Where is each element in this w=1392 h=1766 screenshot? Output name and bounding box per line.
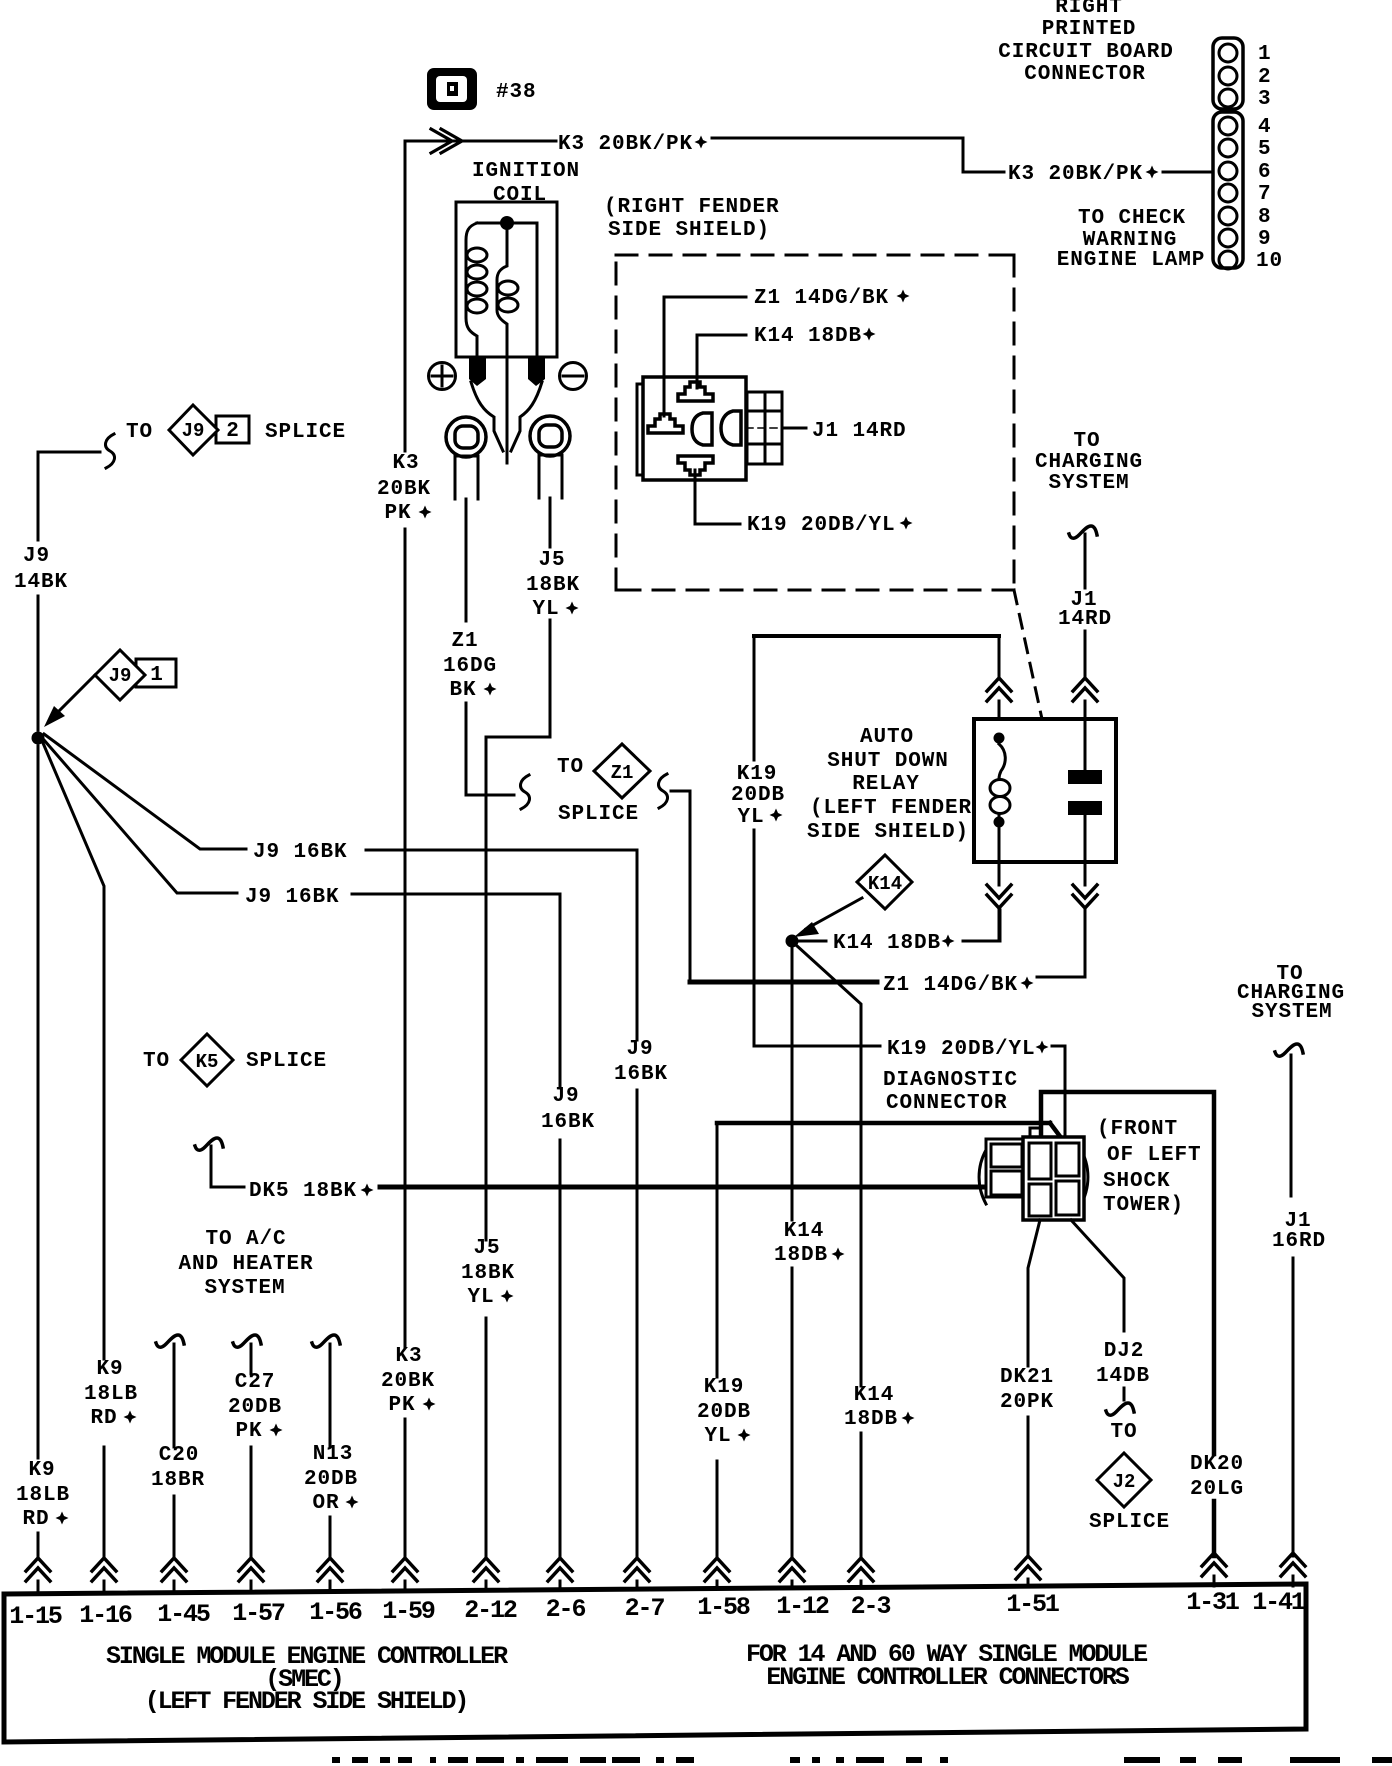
svg-text:(LEFT FENDER SIDE SHIELD): (LEFT FENDER SIDE SHIELD) — [145, 1687, 468, 1716]
svg-text:1: 1 — [1258, 43, 1272, 66]
ignition coil right inner wire — [536, 223, 539, 357]
label K9 18LB RD (above 1-15) — [16, 1459, 70, 1531]
Z1 splice diamond — [594, 744, 650, 798]
squiggle J1 top — [1069, 526, 1097, 538]
plus symbol — [429, 363, 456, 390]
chevron pin 1-57 — [239, 1558, 263, 1581]
svg-text:2-6: 2-6 — [546, 1595, 586, 1624]
label K3 20BK PK (lower) — [381, 1345, 435, 1417]
chevron pin 1-59 — [393, 1558, 417, 1581]
chevron pin 1-56 — [318, 1558, 342, 1581]
svg-text:AND HEATER: AND HEATER — [178, 1253, 313, 1276]
J9 1 splice box — [136, 659, 176, 687]
svg-text:K14 18DB: K14 18DB — [833, 932, 941, 955]
svg-text:K14: K14 — [868, 873, 902, 895]
svg-text:YL: YL — [737, 806, 764, 829]
svg-text:SPLICE: SPLICE — [246, 1050, 327, 1073]
svg-text:K5: K5 — [196, 1051, 219, 1073]
wire J1 from connector side tab — [782, 427, 806, 430]
svg-text:K9: K9 — [96, 1358, 123, 1381]
svg-text:TO: TO — [126, 421, 153, 444]
chevron J1 into relay — [1073, 678, 1097, 701]
svg-text:SPLICE: SPLICE — [558, 803, 639, 826]
diagnostic connector circle — [979, 1148, 1088, 1206]
wire J1 into relay — [1084, 631, 1087, 676]
bottom cut-off scan marks — [332, 1757, 1392, 1763]
svg-text:RELAY: RELAY — [852, 773, 920, 796]
wire J9 14BK main vertical — [37, 452, 40, 1556]
svg-text:J1 14RD: J1 14RD — [812, 420, 907, 443]
svg-text:1-31: 1-31 — [1186, 1588, 1239, 1617]
wire node diagonal to pin 2-3 — [796, 945, 861, 1556]
svg-text:PK: PK — [384, 502, 411, 525]
wire K19 vertical to pin 1-58 — [716, 1123, 719, 1556]
J9 1 splice diamond — [95, 650, 145, 700]
svg-text:4: 4 — [1258, 116, 1272, 139]
wire DK5 drop — [211, 1146, 244, 1187]
svg-text:16RD: 16RD — [1272, 1230, 1326, 1253]
svg-text:SYSTEM: SYSTEM — [204, 1277, 285, 1300]
label Z1 16DG BK — [443, 630, 497, 702]
svg-text:J9: J9 — [626, 1038, 653, 1061]
svg-text:N13: N13 — [313, 1443, 354, 1466]
svg-text:(RIGHT FENDER: (RIGHT FENDER — [604, 196, 780, 219]
connector back plate — [637, 384, 643, 475]
connector top pin — [678, 382, 713, 401]
relay contact bar upper — [1068, 770, 1102, 784]
wire K14 to relay connector top pin — [697, 335, 746, 388]
wire J5 jog to pin 2-12 — [486, 620, 550, 1556]
wire fan 1 to J9 16BK label — [44, 734, 246, 849]
wire K3 top horizontal — [405, 140, 556, 143]
PCB connector hole 4 — [1219, 117, 1237, 135]
svg-text:2-12: 2-12 — [464, 1596, 517, 1625]
label K3 20BK PK (upper) — [377, 452, 431, 525]
svg-text:20BK: 20BK — [381, 1370, 435, 1393]
svg-text:1-41: 1-41 — [1252, 1588, 1305, 1617]
svg-text:K14: K14 — [784, 1220, 825, 1243]
J9 splice diamond — [169, 405, 218, 455]
coil terminal right (black) — [528, 357, 545, 386]
diagnostic connector cell top-left — [1029, 1143, 1051, 1179]
arrow chevrons on K3 wire — [431, 129, 462, 153]
svg-text:8: 8 — [1258, 206, 1272, 229]
svg-text:18DB: 18DB — [844, 1408, 898, 1431]
PCB connector hole 10 — [1219, 251, 1237, 269]
svg-text:18LB: 18LB — [16, 1484, 70, 1507]
K14 node junction dot — [786, 935, 799, 948]
diagnostic connector top tab — [1030, 1128, 1041, 1137]
arrow from K14 diamond to node — [806, 898, 862, 929]
svg-text:CHARGING: CHARGING — [1035, 451, 1143, 474]
svg-text:18BR: 18BR — [151, 1469, 205, 1492]
label K19 20DB YL (stacked) — [731, 763, 785, 829]
svg-text:DJ2: DJ2 — [1104, 1340, 1145, 1363]
J2 splice diamond — [1097, 1453, 1151, 1507]
svg-text:20DB: 20DB — [697, 1401, 751, 1424]
svg-text:(LEFT FENDER: (LEFT FENDER — [810, 797, 972, 820]
chevron coil top — [987, 678, 1011, 701]
svg-text:18LB: 18LB — [84, 1383, 138, 1406]
wire ring terminal 2 down — [549, 498, 552, 547]
wire DK21 from connector to pin 1-51 — [1028, 1220, 1040, 1556]
svg-text:TO: TO — [143, 1050, 170, 1073]
connector bottom pin — [678, 456, 713, 475]
svg-text:J9: J9 — [182, 420, 205, 442]
wire to pin 6 — [1163, 171, 1211, 174]
wire fan 2 to J9 16BK label — [44, 740, 237, 893]
svg-text:PK: PK — [388, 1394, 415, 1417]
svg-text:14BK: 14BK — [14, 571, 68, 594]
svg-text:14RD: 14RD — [1058, 608, 1112, 631]
ignition coil top inner wire — [477, 222, 537, 225]
squiggle J1 16RD top — [1275, 1044, 1303, 1056]
svg-text:PK: PK — [235, 1420, 262, 1443]
svg-text:DK21: DK21 — [1000, 1366, 1054, 1389]
svg-text:SPLICE: SPLICE — [1089, 1511, 1170, 1534]
svg-text:20DB: 20DB — [304, 1468, 358, 1491]
svg-text:K3 20BK/PK: K3 20BK/PK — [558, 133, 693, 156]
wire K19 vertical — [753, 636, 756, 1046]
svg-text:Z1 14DG/BK: Z1 14DG/BK — [754, 287, 889, 310]
svg-text:1-56: 1-56 — [309, 1598, 362, 1627]
relay coil upper dot — [994, 733, 1005, 744]
svg-text:IGNITION: IGNITION — [472, 160, 580, 183]
chevron pin 2-12 — [474, 1558, 498, 1581]
diagnostic connector left block — [986, 1139, 1024, 1197]
PCB connector hole 6 — [1219, 162, 1237, 180]
chevron coil bottom — [987, 885, 1011, 908]
svg-text:SPLICE: SPLICE — [265, 421, 346, 444]
ring terminal eyelet left — [446, 417, 486, 499]
svg-text:J9 16BK: J9 16BK — [245, 886, 340, 909]
squiggle C20 — [156, 1335, 184, 1347]
wire K19 to label row — [754, 1045, 880, 1048]
chevron pin 1-31 — [1202, 1553, 1226, 1576]
svg-text:18BK: 18BK — [461, 1262, 515, 1285]
svg-text:SHUT DOWN: SHUT DOWN — [827, 750, 949, 773]
pin labels row — [9, 1588, 1305, 1631]
connector left pin — [648, 414, 683, 433]
svg-text:C27: C27 — [235, 1371, 276, 1394]
label front of left shock tower — [1097, 1118, 1202, 1217]
PCB connector hole 8 — [1219, 207, 1237, 225]
chevron pin 2-3 — [849, 1558, 873, 1581]
connector middle pin — [692, 413, 712, 445]
svg-text:C20: C20 — [159, 1444, 200, 1467]
svg-text:AUTO: AUTO — [860, 726, 914, 749]
svg-text:ENGINE LAMP: ENGINE LAMP — [1057, 249, 1206, 272]
svg-text:9: 9 — [1258, 228, 1272, 251]
svg-text:J9: J9 — [23, 545, 50, 568]
wire J1 16RD — [1291, 1055, 1293, 1556]
arrow J9 1 diamond to node — [57, 675, 95, 713]
wire DK5 to diagnostic connector — [380, 1185, 982, 1190]
svg-text:1-51: 1-51 — [1006, 1590, 1059, 1619]
svg-text:16BK: 16BK — [614, 1063, 668, 1086]
svg-text:Z1: Z1 — [611, 762, 634, 784]
dash-dot centerline through side tab — [746, 427, 806, 429]
label K9 18LB RD (above 1-16) — [84, 1358, 138, 1430]
svg-text:CONNECTOR: CONNECTOR — [886, 1092, 1008, 1115]
svg-text:1-16: 1-16 — [79, 1601, 132, 1630]
wire Z1 splice to Z1 label — [671, 791, 690, 979]
label for 14 and 60 way connectors — [746, 1640, 1147, 1692]
svg-text:OR: OR — [312, 1492, 339, 1515]
squiggle C27 — [233, 1335, 261, 1347]
wire contact bottom exit — [1084, 862, 1087, 885]
squiggle right of Z1 splice — [658, 774, 667, 808]
svg-text:16BK: 16BK — [541, 1111, 595, 1134]
svg-text:1-12: 1-12 — [776, 1592, 829, 1621]
wire J9 top corner to squiggle — [38, 451, 100, 454]
wire fan2 to pin 2-6 — [352, 894, 560, 1556]
wire K14 label to relay coil — [963, 910, 1000, 941]
svg-text:10: 10 — [1256, 250, 1283, 273]
svg-text:1-58: 1-58 — [697, 1593, 750, 1622]
svg-text:BK: BK — [449, 679, 476, 702]
coil center HT lead — [506, 357, 509, 463]
dashed diagonal to relay — [1014, 590, 1042, 719]
chevron pin 2-7 — [625, 1558, 649, 1581]
svg-text:YL: YL — [467, 1286, 494, 1309]
svg-text:J9: J9 — [109, 665, 132, 687]
wire node to K14 label — [799, 940, 826, 943]
K19 loop top wire — [754, 634, 999, 638]
svg-text:K19 20DB/YL: K19 20DB/YL — [887, 1038, 1036, 1061]
svg-text:Z1: Z1 — [451, 630, 478, 653]
connector side tab — [747, 392, 782, 464]
ignition coil T1 box — [456, 202, 557, 357]
diagnostic connector cell top-right — [1056, 1143, 1079, 1176]
svg-text:J9: J9 — [552, 1085, 579, 1108]
wire K3 to PCB connector — [712, 138, 1004, 172]
svg-text:#38: #38 — [496, 81, 537, 104]
pin numbers 1-10 — [1256, 43, 1283, 273]
svg-text:K19 20DB/YL: K19 20DB/YL — [747, 514, 896, 537]
diagnostic connector main square — [1023, 1137, 1084, 1220]
svg-text:(FRONT: (FRONT — [1097, 1118, 1178, 1141]
svg-text:RIGHT: RIGHT — [1055, 0, 1123, 19]
svg-text:2-7: 2-7 — [625, 1594, 665, 1623]
svg-text:OF LEFT: OF LEFT — [1107, 1144, 1202, 1167]
wire fan1 to pin 2-7 — [366, 850, 637, 1556]
squiggle N13 — [312, 1335, 340, 1347]
label J5 18BK YL — [526, 549, 580, 621]
svg-text:TO: TO — [557, 756, 584, 779]
svg-text:Z1 14DG/BK: Z1 14DG/BK — [883, 974, 1018, 997]
wire DK20 loop to pin 1-31 — [1041, 1092, 1214, 1454]
label C20 18BR — [151, 1444, 205, 1492]
svg-text:SYSTEM: SYSTEM — [1048, 472, 1129, 495]
label K19 20DB YL (above 1-58) — [697, 1376, 751, 1448]
wire K3 vertical — [404, 141, 407, 1556]
relay coil exit wire — [998, 826, 1001, 862]
PCB connector body upper — [1213, 38, 1243, 109]
PCB connector hole 2 — [1219, 67, 1237, 85]
wire C20 to pin 1-45 — [173, 1344, 176, 1556]
svg-text:2: 2 — [226, 420, 240, 443]
svg-text:J9 16BK: J9 16BK — [253, 841, 348, 864]
label N13 20DB OR — [304, 1443, 358, 1515]
svg-text:TO CHECK: TO CHECK — [1078, 207, 1186, 230]
label J9 16BK (above 2-6) — [541, 1085, 595, 1134]
relay coil — [999, 744, 1005, 779]
relay box — [974, 719, 1116, 862]
wire Z1 to relay connector left pin — [664, 297, 746, 416]
chevron contact bottom — [1073, 885, 1097, 908]
connector right pin — [721, 411, 741, 445]
label DK21 20PK — [1000, 1366, 1054, 1414]
connector icon #38 — [427, 68, 477, 110]
PCB connector hole 1 — [1219, 44, 1237, 62]
label J5 18BK YL (above 2-12) — [461, 1237, 515, 1309]
svg-text:K9: K9 — [28, 1459, 55, 1482]
label DK20 20LG — [1190, 1453, 1244, 1501]
svg-text:SYSTEM: SYSTEM — [1251, 1001, 1332, 1024]
wire into relay coil top — [998, 636, 1001, 676]
relay contact wire top — [1084, 719, 1087, 769]
wire C27 to pin 1-57 — [250, 1344, 253, 1556]
svg-text:TO: TO — [1073, 430, 1100, 453]
svg-text:K3 20BK/PK: K3 20BK/PK — [1008, 163, 1143, 186]
label auto shut down relay — [807, 726, 972, 844]
svg-text:SIDE SHIELD): SIDE SHIELD) — [608, 219, 770, 242]
svg-text:5: 5 — [1258, 138, 1272, 161]
chevron pin 2-6 — [548, 1558, 572, 1581]
svg-text:1-57: 1-57 — [232, 1599, 285, 1628]
svg-text:YL: YL — [532, 598, 559, 621]
wire ring terminal 1 down — [465, 499, 468, 621]
svg-text:2-3: 2-3 — [851, 1592, 891, 1621]
svg-text:7: 7 — [1258, 183, 1272, 206]
wire N13 to pin 1-56 — [329, 1344, 332, 1556]
svg-text:DK5 18BK: DK5 18BK — [249, 1180, 357, 1203]
chevron pin 1-51 — [1016, 1556, 1040, 1579]
svg-text:K14: K14 — [854, 1384, 895, 1407]
svg-text:DIAGNOSTIC: DIAGNOSTIC — [883, 1069, 1018, 1092]
svg-text:SIDE SHIELD): SIDE SHIELD) — [807, 821, 969, 844]
wire Z1 to splice squiggle — [466, 703, 514, 795]
svg-text:1-59: 1-59 — [382, 1597, 435, 1626]
svg-text:ENGINE CONTROLLER CONNECTORS: ENGINE CONTROLLER CONNECTORS — [766, 1663, 1129, 1692]
svg-text:1-15: 1-15 — [9, 1602, 62, 1631]
svg-text:CONNECTOR: CONNECTOR — [1024, 63, 1146, 86]
relay contact bar lower — [1068, 801, 1102, 815]
chevron pin 1-41 — [1281, 1553, 1305, 1576]
K14 splice diamond — [857, 855, 912, 909]
label C27 20DB PK — [228, 1371, 282, 1443]
svg-text:18BK: 18BK — [526, 574, 580, 597]
PCB connector body lower — [1213, 112, 1243, 268]
PCB connector hole 9 — [1219, 229, 1237, 247]
coil terminal left (black) — [469, 357, 486, 386]
dashed enclosure box — [616, 255, 1014, 590]
svg-text:TOWER): TOWER) — [1103, 1194, 1184, 1217]
svg-text:PRINTED: PRINTED — [1042, 18, 1137, 41]
chevron pin 1-58 — [705, 1558, 729, 1581]
squiggle DK5 — [195, 1138, 223, 1150]
svg-text:16DG: 16DG — [443, 655, 497, 678]
svg-text:COIL: COIL — [493, 184, 547, 207]
chevron pin 1-12 — [780, 1558, 804, 1581]
svg-text:20DB: 20DB — [731, 784, 785, 807]
wire coil bottom exit — [998, 862, 1001, 885]
ignition coil junction dot — [500, 216, 514, 230]
svg-text:CIRCUIT BOARD: CIRCUIT BOARD — [998, 41, 1174, 64]
wire DJ2 from connector — [1071, 1220, 1124, 1331]
J9 2 splice box — [216, 416, 249, 443]
minus symbol — [560, 363, 587, 390]
svg-text:J2: J2 — [1113, 1471, 1136, 1493]
wire Z1 label to relay contact — [1037, 950, 1085, 977]
svg-text:SHOCK: SHOCK — [1103, 1170, 1171, 1193]
wire K19 from relay connector bottom pin — [695, 470, 740, 524]
svg-text:RD: RD — [22, 1508, 49, 1531]
PCB connector hole 7 — [1219, 184, 1237, 202]
PCB connector hole 3 — [1219, 89, 1237, 107]
wire J1 14RD down — [1084, 534, 1087, 588]
label to A/C and heater system — [178, 1228, 313, 1300]
ring terminal eyelet right — [530, 416, 570, 498]
svg-text:TO A/C: TO A/C — [205, 1228, 286, 1251]
relay contact wire bottom — [1084, 816, 1087, 862]
svg-text:1: 1 — [150, 664, 164, 687]
svg-text:K19: K19 — [704, 1376, 745, 1399]
label J9 16BK (above 2-7) — [614, 1038, 668, 1086]
svg-text:18DB: 18DB — [774, 1244, 828, 1267]
wire K19 horizontal to pin 1-58 — [717, 1121, 1050, 1126]
diagnostic connector cell bottom-right — [1056, 1181, 1079, 1215]
K5 splice diamond — [181, 1034, 233, 1086]
chevron pin 1-45 — [162, 1558, 186, 1581]
svg-text:TO: TO — [1110, 1421, 1137, 1444]
svg-text:14DB: 14DB — [1096, 1365, 1150, 1388]
label K14 18DB (above 1-12) — [774, 1220, 828, 1267]
svg-text:K19: K19 — [737, 763, 778, 786]
svg-text:DK20: DK20 — [1190, 1453, 1244, 1476]
chevron pin 1-15 — [26, 1558, 50, 1581]
label single module engine controller — [106, 1642, 508, 1716]
wire node down to pin 1-12 — [791, 948, 794, 1556]
label DJ2 14DB — [1096, 1340, 1150, 1388]
connector main body — [643, 377, 746, 480]
diagnostic connector cell bottom-left — [1029, 1184, 1051, 1216]
svg-text:RD: RD — [90, 1407, 117, 1430]
label J1 16RD — [1272, 1210, 1326, 1253]
svg-text:K14 18DB: K14 18DB — [754, 325, 862, 348]
svg-text:6: 6 — [1258, 161, 1272, 184]
wire fan 3 to pin 1-16 — [43, 743, 104, 1556]
svg-text:K3: K3 — [395, 1345, 422, 1368]
svg-text:20BK: 20BK — [377, 478, 431, 501]
svg-text:K3: K3 — [392, 452, 419, 475]
label K14 18DB (above 2-3) — [844, 1384, 898, 1431]
chevron pin 1-16 — [92, 1558, 116, 1581]
J9 node junction dot — [32, 732, 45, 745]
svg-text:1-45: 1-45 — [157, 1600, 210, 1629]
PCB connector hole 5 — [1219, 139, 1237, 157]
svg-text:20DB: 20DB — [228, 1396, 282, 1419]
ignition coil primary winding — [466, 223, 477, 357]
SMEC controller box — [4, 1584, 1306, 1742]
relay coil lower dot — [994, 817, 1005, 828]
svg-text:J5: J5 — [538, 549, 565, 572]
svg-text:3: 3 — [1258, 88, 1272, 111]
svg-text:YL: YL — [704, 1425, 731, 1448]
label to charging system (lower) — [1237, 963, 1345, 1024]
wire DJ2 stub to squiggle — [1123, 1388, 1126, 1400]
